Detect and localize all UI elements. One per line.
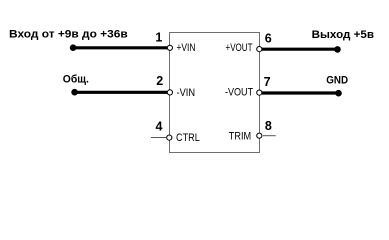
svg-text:7: 7 xyxy=(264,75,271,89)
svg-text:Вход от +9в до +36в: Вход от +9в до +36в xyxy=(9,28,128,40)
svg-text:2: 2 xyxy=(156,74,163,88)
junction dot input common xyxy=(71,89,78,96)
junction dot input + xyxy=(70,44,77,51)
svg-text:4: 4 xyxy=(155,119,162,133)
wire output GND xyxy=(262,91,339,94)
svg-text:+VOUT: +VOUT xyxy=(226,42,253,54)
svg-text:6: 6 xyxy=(265,32,272,46)
svg-text:TRIM: TRIM xyxy=(229,131,251,143)
wire output +5v xyxy=(262,48,338,51)
pin 8 terminal circle TRIM xyxy=(257,133,262,138)
svg-text:+VIN: +VIN xyxy=(177,42,196,54)
svg-text:CTRL: CTRL xyxy=(176,132,200,144)
wire input + xyxy=(73,46,167,49)
wire stub pin 4 CTRL xyxy=(151,137,166,139)
svg-text:1: 1 xyxy=(155,30,162,44)
svg-text:8: 8 xyxy=(265,119,272,133)
svg-text:-VOUT: -VOUT xyxy=(225,87,253,99)
svg-text:Выход +5в: Выход +5в xyxy=(312,29,375,41)
pin 2 terminal circle -VIN xyxy=(167,90,172,95)
svg-text:-VIN: -VIN xyxy=(177,87,196,99)
svg-text:GND: GND xyxy=(326,74,348,86)
pin 4 terminal circle CTRL xyxy=(167,135,172,140)
pin 7 terminal circle -VOUT xyxy=(257,90,262,95)
converter module U1 body xyxy=(170,33,260,153)
junction dot output +5v xyxy=(334,46,341,53)
svg-text:Общ.: Общ. xyxy=(63,73,89,85)
junction dot output GND xyxy=(335,90,342,97)
wire stub pin 8 TRIM xyxy=(263,135,276,137)
wire input common xyxy=(75,91,168,94)
pin 1 terminal circle +VIN xyxy=(167,45,172,50)
pin 6 terminal circle +VOUT xyxy=(257,47,262,52)
